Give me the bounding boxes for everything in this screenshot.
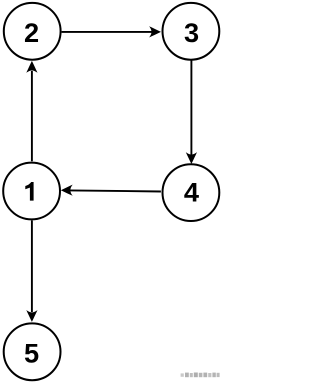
node 5 bbox=[4, 323, 61, 380]
node 1 bbox=[3, 163, 60, 220]
wire edge 1->2 bbox=[26, 61, 37, 161]
wire edge 1->5 bbox=[26, 221, 37, 322]
node 4 bbox=[163, 164, 220, 221]
wire edge 2->3 bbox=[62, 26, 161, 37]
node 3 bbox=[163, 3, 220, 60]
wire edge 3->4 bbox=[186, 60, 197, 164]
svg-text:2: 2 bbox=[24, 17, 39, 48]
node 2 bbox=[4, 3, 61, 60]
svg-text:5: 5 bbox=[24, 337, 39, 368]
svg-text:3: 3 bbox=[184, 17, 199, 48]
wire edge 4->1 bbox=[61, 185, 161, 196]
watermark bbox=[181, 373, 220, 378]
svg-text:4: 4 bbox=[184, 176, 199, 207]
